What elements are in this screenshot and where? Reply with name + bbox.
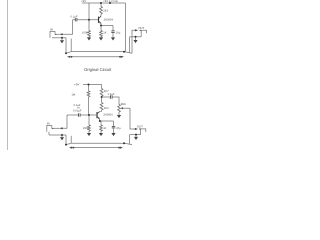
svg-text:2N3904: 2N3904: [104, 19, 114, 22]
node input sleeve B: [61, 134, 63, 136]
input jack J1: [50, 32, 55, 38]
wire to R3: [100, 26, 102, 31]
wire output sleeve lead: [136, 36, 142, 38]
svg-text:100K: 100K: [83, 127, 89, 130]
node emitter junction: [100, 25, 102, 27]
wire output sleeve riser B: [129, 135, 131, 144]
svg-text:+9V: +9V: [74, 82, 79, 86]
wire +9V rail top: [82, 2, 126, 4]
wire wiper to output jack: [130, 108, 135, 129]
wire collector node down to Q2: [101, 97, 103, 103]
node base junction B: [88, 114, 90, 116]
ground R7: [99, 133, 103, 136]
resistor R3 1K emitter: [100, 31, 103, 37]
node bus left: [65, 52, 67, 54]
node input arrow: [59, 33, 62, 35]
capacitor C3 input plates B: [78, 113, 80, 116]
wire shield left vertical: [70, 39, 72, 52]
capacitor C4 47uF bypass B: [113, 121, 115, 126]
wire +9V rail bottom circuit: [83, 84, 102, 86]
wire ground bus left riser: [65, 38, 67, 53]
svg-text:2K2: 2K2: [104, 107, 109, 110]
svg-text:10µ: 10µ: [116, 32, 121, 35]
wire emitter node horizontal: [101, 25, 113, 27]
svg-text:B5K: B5K: [121, 103, 126, 106]
svg-text:1K: 1K: [103, 32, 106, 35]
svg-text:Original Circuit: Original Circuit: [84, 67, 112, 72]
node output sleeve: [135, 36, 137, 38]
svg-text:47µ: 47µ: [116, 127, 121, 130]
resistor R5 4K7 collector B: [100, 89, 103, 97]
wire input riser B: [63, 115, 68, 128]
wire base horizontal right segment: [77, 19, 99, 21]
resistor R2 2K2 collector: [100, 7, 103, 15]
svg-text:OUT: OUT: [137, 125, 143, 129]
wire cap to pot: [112, 97, 119, 105]
ground output jack: [135, 37, 137, 40]
node bus right B: [123, 142, 125, 144]
wire jack tip lead: [57, 33, 60, 35]
ground output jack B: [135, 135, 137, 137]
wire base horizontal right segment B: [80, 114, 96, 116]
resistor R4 1M divider top: [88, 85, 90, 91]
wire jack tip lead B: [53, 127, 59, 129]
capacitor C5 output plates: [110, 95, 112, 98]
wire output sleeve lead B: [136, 134, 141, 136]
ground R1: [87, 37, 91, 40]
input jack J3: [47, 126, 52, 132]
ground R8: [87, 133, 91, 136]
wire shield run with arrows B: [71, 147, 121, 149]
ground C2: [111, 37, 115, 40]
resistor R6 2K2 drop: [100, 103, 103, 111]
wire to R7: [100, 121, 102, 125]
node output sleeve B: [135, 134, 137, 136]
transistor Q2 2N3904: [96, 112, 98, 118]
potentiometer VR1 B5K: [118, 105, 121, 113]
wire collector vertical: [100, 3, 102, 7]
node rail collector: [100, 2, 102, 4]
wire shield left vertical B: [70, 136, 72, 143]
transistor Q1 2N3904: [98, 17, 100, 23]
output jack J2: [141, 30, 146, 37]
svg-text:OUT: OUT: [138, 26, 144, 30]
ground input jack B: [61, 135, 63, 137]
svg-text:2K2: 2K2: [103, 10, 108, 13]
node output arrow B: [135, 128, 138, 130]
wire input riser: [63, 20, 73, 35]
svg-text:1K: 1K: [103, 127, 106, 130]
node base junction: [88, 19, 90, 21]
node rail supply: [109, 2, 111, 4]
wire ground bus left riser B: [65, 135, 67, 145]
wire output tip riser: [132, 30, 135, 53]
svg-text:1M: 1M: [72, 93, 76, 96]
node rail B: [88, 84, 90, 86]
svg-text:+9V 1.2 mA: +9V 1.2 mA: [103, 0, 118, 3]
wire shield run with arrows: [69, 56, 122, 58]
svg-text:1.5µF: 1.5µF: [108, 93, 115, 96]
resistor R1 100K base: [88, 20, 90, 31]
svg-text:IN: IN: [50, 27, 53, 31]
ground C4: [111, 133, 115, 136]
resistor R7 1K emitter B: [100, 125, 103, 131]
wire output sleeve riser: [129, 37, 131, 53]
node collector junction B: [101, 96, 103, 98]
capacitor C1 0.1uF plates: [74, 18, 76, 21]
svg-text:100K: 100K: [82, 32, 88, 35]
svg-text:0.1µF: 0.1µF: [71, 16, 78, 19]
node emitter junction B: [99, 120, 101, 122]
wire base pullup vertical: [88, 3, 90, 20]
svg-text:0.01µF: 0.01µF: [73, 109, 82, 112]
page border line: [7, 0, 9, 150]
output jack J4: [141, 129, 146, 135]
wire emitter node B: [100, 120, 114, 122]
node input sleeve: [61, 37, 63, 39]
wire ground bus: [66, 52, 132, 54]
node output arrow: [135, 29, 138, 31]
svg-text:+9V: +9V: [81, 0, 86, 3]
node bus left B: [65, 144, 67, 146]
svg-text:IN: IN: [47, 122, 50, 126]
ground R3: [99, 37, 103, 40]
wire jack sleeve B: [48, 132, 50, 135]
node bus right: [123, 51, 125, 53]
wire collector vertical B: [101, 85, 103, 89]
pot wiper arrow: [120, 107, 123, 109]
wire output cap branch: [102, 96, 111, 98]
wire right supply drop: [125, 3, 127, 52]
resistor R8 100K base B: [88, 114, 91, 116]
wire ground bus B: [66, 143, 132, 144]
wire base horizontal left segment B: [67, 114, 78, 116]
wire base horizontal left segment: [73, 19, 76, 21]
svg-text:2N3904: 2N3904: [103, 114, 113, 117]
wire jack sleeve: [52, 37, 66, 39]
node input arrow B: [59, 127, 62, 129]
capacitor C2 10uF bypass: [112, 26, 114, 31]
ground VR1: [118, 114, 120, 115]
ground input jack: [61, 38, 63, 41]
